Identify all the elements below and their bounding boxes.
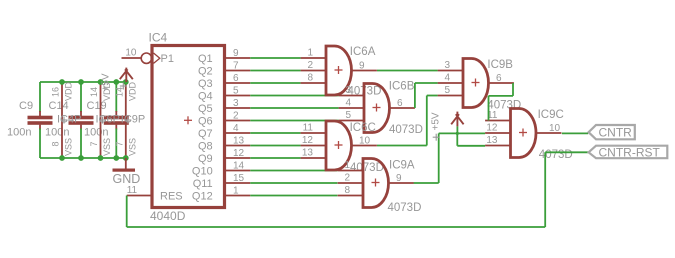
svg-text:100n: 100n bbox=[84, 127, 108, 139]
junction node at +5V branch bbox=[456, 132, 459, 135]
svg-text:Q1: Q1 bbox=[198, 53, 213, 65]
svg-text:2: 2 bbox=[344, 173, 350, 184]
pin Q6 (2) bbox=[198, 111, 250, 128]
svg-text:5: 5 bbox=[345, 110, 351, 121]
junction dots bottom rail bbox=[59, 155, 129, 161]
pin IC6B input 3 bbox=[339, 85, 364, 96]
wire IC6A out to IC9B pin3 bbox=[377, 70, 438, 72]
pin IC6A input 8 bbox=[301, 73, 326, 84]
svg-text:6: 6 bbox=[397, 98, 403, 109]
svg-text:VSS: VSS bbox=[102, 138, 112, 156]
svg-text:7: 7 bbox=[233, 61, 239, 72]
svg-text:+5V: +5V bbox=[100, 73, 111, 91]
svg-text:4073D: 4073D bbox=[389, 124, 423, 136]
svg-text:VSS: VSS bbox=[64, 138, 74, 156]
svg-text:3: 3 bbox=[345, 85, 351, 96]
node CNTR flag bbox=[589, 125, 635, 140]
AND gate IC6B 4073D bbox=[364, 81, 423, 137]
wire Q11 net bbox=[250, 182, 337, 184]
svg-text:12: 12 bbox=[302, 135, 314, 146]
svg-text:IC6B: IC6B bbox=[389, 81, 415, 93]
svg-text:14: 14 bbox=[89, 87, 99, 97]
svg-text:Q3: Q3 bbox=[198, 78, 213, 90]
svg-text:Q4: Q4 bbox=[198, 91, 213, 103]
svg-text:10: 10 bbox=[125, 48, 137, 59]
svg-text:6: 6 bbox=[496, 73, 502, 84]
pin IC9B input 3 bbox=[438, 60, 463, 71]
svg-text:IC4: IC4 bbox=[149, 31, 168, 45]
wire Q10 net bbox=[250, 170, 337, 172]
svg-text:6: 6 bbox=[233, 73, 239, 84]
AND gate IC9A 4073D bbox=[363, 159, 421, 215]
pin IC9A output 9 bbox=[389, 173, 414, 184]
pin IC9A input 2 bbox=[338, 173, 363, 184]
svg-text:Q11: Q11 bbox=[193, 178, 213, 190]
svg-text:7: 7 bbox=[114, 141, 124, 146]
pin Q1 (9) bbox=[198, 48, 250, 65]
pin RES (11) bbox=[127, 185, 183, 203]
svg-text:P1: P1 bbox=[161, 53, 174, 65]
wire Q3 net bbox=[250, 82, 300, 84]
pin Q5 (3) bbox=[198, 98, 250, 115]
pin IC6A output 9 bbox=[352, 61, 377, 72]
svg-text:C9: C9 bbox=[19, 100, 33, 112]
IC U1 IC4 4040D binary counter body bbox=[149, 31, 225, 224]
svg-text:2: 2 bbox=[233, 111, 239, 122]
capacitor C9 bbox=[7, 82, 53, 158]
pin IC9C output 10 bbox=[536, 123, 561, 134]
svg-text:3: 3 bbox=[444, 60, 450, 71]
wire IC6B out to IC9B pin4 bbox=[415, 83, 438, 108]
svg-text:4073D: 4073D bbox=[539, 149, 573, 161]
capacitor C19 bbox=[84, 82, 129, 158]
power pins IC6P bbox=[89, 81, 120, 158]
svg-text:9: 9 bbox=[359, 61, 365, 72]
svg-text:3: 3 bbox=[233, 98, 239, 109]
svg-text:CNTR-RST: CNTR-RST bbox=[599, 146, 661, 160]
pin Q9 (12) bbox=[198, 148, 250, 165]
pin IC9B output 6 bbox=[489, 73, 514, 84]
svg-text:VDD: VDD bbox=[64, 81, 74, 101]
pin IC6B output 6 bbox=[390, 98, 415, 109]
wire IC9C out to CNTR bbox=[562, 132, 588, 134]
pin IC6B input 4 bbox=[339, 98, 364, 109]
pin IC9C input 13 bbox=[485, 135, 510, 146]
svg-text:IC9B: IC9B bbox=[487, 59, 513, 71]
wire IC9A out to IC9C pin12 bbox=[414, 133, 485, 183]
svg-text:100n: 100n bbox=[7, 127, 31, 139]
svg-text:9: 9 bbox=[233, 48, 239, 59]
wire IC9B out to IC9C pin11 bbox=[489, 83, 514, 121]
AND gate IC9C 4073D bbox=[511, 109, 573, 162]
+5V supply P+1 bbox=[100, 68, 133, 92]
svg-text:+5V: +5V bbox=[431, 112, 442, 130]
pin Q7 (4) bbox=[198, 123, 250, 140]
wire Q2 net bbox=[250, 70, 300, 72]
pin IC6C input 11 bbox=[301, 123, 326, 134]
node CNTR-RST flag bbox=[589, 146, 668, 160]
pin IC6B input 5 bbox=[339, 110, 364, 121]
svg-text:4073D: 4073D bbox=[350, 162, 384, 174]
power pins IC9P bbox=[114, 81, 145, 158]
AND gate IC9B 4073D bbox=[463, 59, 521, 112]
svg-text:8: 8 bbox=[344, 185, 350, 196]
svg-text:100n: 100n bbox=[45, 127, 69, 139]
svg-text:10: 10 bbox=[359, 136, 371, 147]
svg-text:13: 13 bbox=[302, 148, 314, 159]
svg-text:16: 16 bbox=[51, 87, 61, 97]
svg-text:10: 10 bbox=[549, 123, 561, 134]
svg-text:11: 11 bbox=[127, 185, 138, 196]
svg-text:2: 2 bbox=[307, 60, 313, 71]
wire Q7 net bbox=[250, 132, 300, 134]
svg-text:VDD: VDD bbox=[127, 81, 137, 101]
wire Q6 net bbox=[250, 120, 338, 122]
svg-text:Q8: Q8 bbox=[198, 141, 213, 153]
pin Q4 (5) bbox=[198, 86, 250, 103]
svg-text:9: 9 bbox=[396, 173, 402, 184]
+5V supply P+2 bbox=[431, 112, 464, 141]
svg-text:5: 5 bbox=[233, 86, 239, 97]
svg-text:8: 8 bbox=[307, 73, 313, 84]
svg-text:12: 12 bbox=[486, 123, 498, 134]
pin IC9C input 11 bbox=[485, 110, 510, 121]
pin IC9A input 8 bbox=[338, 185, 363, 196]
svg-text:4040D: 4040D bbox=[150, 209, 186, 223]
svg-text:IC9C: IC9C bbox=[538, 109, 564, 121]
AND gate IC6C 4073D bbox=[326, 121, 384, 174]
svg-text:15: 15 bbox=[233, 173, 245, 184]
svg-text:Q2: Q2 bbox=[198, 66, 213, 78]
wire Q4 net bbox=[250, 95, 338, 97]
pin Q8 (13) bbox=[198, 136, 250, 153]
wire branch to IC9C pin13 bbox=[457, 133, 485, 145]
svg-text:IC9A: IC9A bbox=[389, 160, 415, 172]
svg-text:Q6: Q6 bbox=[198, 116, 213, 128]
svg-text:1: 1 bbox=[344, 160, 350, 171]
pin IC6A input 1 bbox=[301, 48, 326, 59]
svg-text:13: 13 bbox=[486, 135, 498, 146]
junction dots top rail bbox=[59, 79, 129, 85]
svg-text:7: 7 bbox=[89, 141, 99, 146]
svg-text:4: 4 bbox=[345, 98, 351, 109]
svg-text:5: 5 bbox=[444, 85, 450, 96]
wire Q1 net bbox=[250, 57, 300, 59]
svg-text:12: 12 bbox=[233, 148, 245, 159]
pin IC9A input 1 bbox=[338, 160, 363, 171]
svg-text:11: 11 bbox=[303, 123, 314, 134]
pin Q11 (15) bbox=[193, 173, 251, 190]
pin Q3 (6) bbox=[198, 73, 250, 90]
power pins IC4P bbox=[51, 81, 82, 158]
pin P1 clock input pin 10 bbox=[122, 48, 174, 66]
wire RES to CNTR-RST bbox=[127, 152, 589, 227]
wire top power rail bbox=[40, 81, 126, 83]
svg-text:Q9: Q9 bbox=[198, 153, 213, 165]
svg-text:VSS: VSS bbox=[127, 138, 137, 156]
wire Q5 net bbox=[250, 107, 338, 109]
svg-text:IC6A: IC6A bbox=[350, 46, 376, 58]
wire Q8 net bbox=[250, 145, 300, 147]
ground GND bbox=[113, 158, 141, 186]
pin IC9B input 5 bbox=[438, 85, 463, 96]
svg-text:Q5: Q5 bbox=[198, 103, 213, 115]
svg-text:CNTR: CNTR bbox=[599, 126, 633, 140]
svg-text:13: 13 bbox=[233, 136, 245, 147]
svg-text:4: 4 bbox=[233, 123, 239, 134]
svg-text:1: 1 bbox=[233, 186, 239, 197]
pin IC6C output 10 bbox=[352, 136, 377, 147]
svg-text:4073D: 4073D bbox=[388, 202, 422, 214]
svg-text:8: 8 bbox=[51, 141, 61, 146]
AND gate IC6A 4073D bbox=[326, 46, 381, 98]
svg-text:1: 1 bbox=[307, 48, 313, 59]
svg-text:14: 14 bbox=[233, 161, 245, 172]
pin IC9B input 4 bbox=[438, 73, 463, 84]
svg-text:4: 4 bbox=[444, 73, 450, 84]
svg-text:Q12: Q12 bbox=[192, 191, 213, 203]
svg-text:IC6C: IC6C bbox=[350, 122, 376, 134]
svg-text:GND: GND bbox=[113, 172, 141, 186]
wire Q12 net bbox=[250, 195, 337, 197]
pin Q12 (1) bbox=[192, 186, 250, 203]
capacitor C14 bbox=[45, 82, 94, 158]
svg-text:Q7: Q7 bbox=[198, 128, 213, 140]
wire IC6C out to IC9B pin5 bbox=[377, 96, 438, 146]
pin Q2 (7) bbox=[198, 61, 250, 78]
svg-text:RES: RES bbox=[160, 191, 183, 203]
pin IC9C input 12 bbox=[485, 123, 510, 134]
pin IC6A input 2 bbox=[301, 60, 326, 71]
pin IC6C input 13 bbox=[301, 148, 326, 159]
wire bottom power rail bbox=[40, 157, 126, 159]
pin Q10 (14) bbox=[192, 161, 250, 178]
wire Q9 net bbox=[250, 157, 300, 159]
pin IC6C input 12 bbox=[301, 135, 326, 146]
svg-text:Q10: Q10 bbox=[192, 166, 213, 178]
